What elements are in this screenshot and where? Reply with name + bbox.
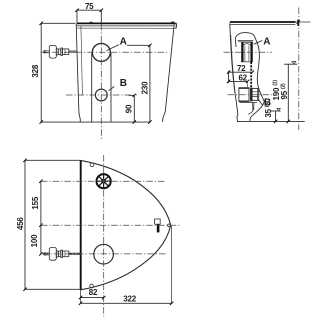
svg-text:155: 155 bbox=[31, 196, 40, 209]
svg-text:322: 322 bbox=[123, 295, 136, 304]
svg-text:A: A bbox=[263, 36, 270, 47]
svg-text:72: 72 bbox=[237, 64, 246, 73]
svg-text:456: 456 bbox=[16, 217, 25, 230]
svg-text:82: 82 bbox=[89, 288, 98, 297]
svg-text:62: 62 bbox=[238, 74, 247, 83]
svg-text:328: 328 bbox=[31, 64, 40, 77]
svg-text:A: A bbox=[120, 36, 127, 47]
svg-text:90: 90 bbox=[125, 104, 134, 113]
svg-text:75: 75 bbox=[85, 2, 94, 11]
svg-text:100: 100 bbox=[30, 234, 39, 247]
svg-text:230: 230 bbox=[140, 81, 149, 94]
svg-text:B: B bbox=[120, 78, 127, 89]
